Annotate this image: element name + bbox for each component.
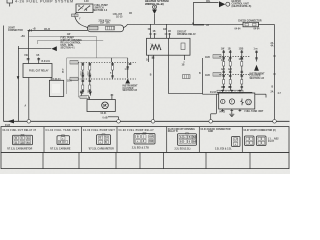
svg-text:04-02: 04-02 xyxy=(210,91,217,94)
svg-text:1GA: 1GA xyxy=(67,80,72,83)
svg-text:'87 2.2L CARBURETOR: '87 2.2L CARBURETOR xyxy=(89,147,115,150)
svg-text:L/T: L/T xyxy=(234,140,238,142)
svg-text:FUEL TANK UNIT: FUEL TANK UNIT xyxy=(245,110,264,113)
svg-text:1B: 1B xyxy=(153,31,156,33)
svg-text:SECTION 4-1: SECTION 4-1 xyxy=(61,47,76,50)
svg-text:SECTION 1-B: SECTION 1-B xyxy=(250,78,265,80)
svg-text:1B: 1B xyxy=(129,13,132,15)
svg-text:1B: 1B xyxy=(228,60,231,62)
svg-text:1GB: 1GB xyxy=(205,57,210,59)
svg-text:1B: 1B xyxy=(21,142,24,144)
svg-text:04-01: 04-01 xyxy=(101,112,108,115)
svg-text:+B: +B xyxy=(206,25,209,27)
svg-text:1B: 1B xyxy=(228,48,231,50)
svg-text:2.2L EGI & 2.2L: 2.2L EGI & 2.2L xyxy=(215,149,232,151)
svg-text:A/B: A/B xyxy=(221,68,225,71)
svg-text:RELAY B: RELAY B xyxy=(168,130,178,133)
svg-text:SECTION 5-B: SECTION 5-B xyxy=(123,90,138,92)
svg-text:04-04 CHECK CONNECTOR: 04-04 CHECK CONNECTOR xyxy=(201,128,231,131)
svg-text:0 dB: 0 dB xyxy=(103,117,108,119)
svg-text:1B: 1B xyxy=(36,55,39,57)
svg-text:B/R: B/R xyxy=(149,141,153,143)
svg-text:B-04-01: B-04-01 xyxy=(42,60,51,63)
svg-text:1B: 1B xyxy=(168,31,171,33)
svg-text:04-07 JOINT CONNECTOR (F): 04-07 JOINT CONNECTOR (F) xyxy=(244,129,276,132)
svg-text:1A: 1A xyxy=(146,58,149,61)
svg-text:SECTION 4-3: SECTION 4-3 xyxy=(93,9,108,12)
svg-text:FUEL CUT RELAY: FUEL CUT RELAY xyxy=(29,70,49,73)
svg-text:OPENING RELAY: OPENING RELAY xyxy=(177,33,196,36)
svg-text:2A: 2A xyxy=(271,91,274,94)
svg-text:1 m: 1 m xyxy=(125,69,129,71)
svg-text:'87 2.2L CARBURE: '87 2.2L CARBURE xyxy=(50,147,71,150)
svg-text:B/R: B/R xyxy=(149,137,153,139)
svg-text:04-02: 04-02 xyxy=(219,110,226,113)
svg-text:04-08 FUEL PUMP RELAY: 04-08 FUEL PUMP RELAY xyxy=(119,129,155,132)
svg-text:04-01 FUEL CUT RELAY #7: 04-01 FUEL CUT RELAY #7 xyxy=(3,129,37,132)
svg-text:2.2L EGI (2.2L): 2.2L EGI (2.2L) xyxy=(175,149,191,151)
svg-text:4A: 4A xyxy=(271,44,274,47)
svg-text:+B1: +B1 xyxy=(21,36,26,38)
svg-text:15A 15A: 15A 15A xyxy=(100,22,110,25)
svg-text:2.2L EGI & 2.TB: 2.2L EGI & 2.TB xyxy=(132,148,149,150)
svg-text:4A: 4A xyxy=(27,141,30,144)
svg-text:1B: 1B xyxy=(182,65,185,67)
svg-text:A/B: A/B xyxy=(228,68,232,71)
svg-text:1A: 1A xyxy=(27,137,30,140)
svg-text:'87 2.2L CARBURETOR: '87 2.2L CARBURETOR xyxy=(7,147,33,150)
svg-text:04-04: 04-04 xyxy=(235,27,242,30)
svg-text:04-03 FUEL PUMP UNIT: 04-03 FUEL PUMP UNIT xyxy=(83,129,115,132)
svg-text:B/R: B/R xyxy=(193,137,197,139)
svg-text:1GB: 1GB xyxy=(205,75,210,77)
svg-text:CONNECTOR: CONNECTOR xyxy=(8,30,23,32)
svg-text:4-30: 4-30 xyxy=(84,0,89,3)
svg-text:+B: +B xyxy=(33,29,36,31)
svg-text:04-04: 04-04 xyxy=(254,27,261,30)
svg-text:(HEATER W/BL-B): (HEATER W/BL-B) xyxy=(232,5,252,8)
svg-text:04-02 FUEL TANK UNIT: 04-02 FUEL TANK UNIT xyxy=(46,129,80,132)
svg-text:04-07: 04-07 xyxy=(268,140,275,143)
svg-text:1GB: 1GB xyxy=(239,48,244,50)
svg-text:1B–B: 1B–B xyxy=(44,29,50,31)
svg-text:1BL: 1BL xyxy=(206,1,211,3)
svg-text:1G-15: 1G-15 xyxy=(116,17,123,19)
svg-text:1 m: 1 m xyxy=(254,49,258,51)
svg-text:1A: 1A xyxy=(105,137,108,140)
svg-text:GND: GND xyxy=(208,131,213,133)
svg-text:1GB: 1GB xyxy=(239,59,244,61)
svg-text:B/R: B/R xyxy=(193,141,197,143)
svg-text:4-26 FUEL PUMP SYSTEM: 4-26 FUEL PUMP SYSTEM xyxy=(15,0,74,4)
